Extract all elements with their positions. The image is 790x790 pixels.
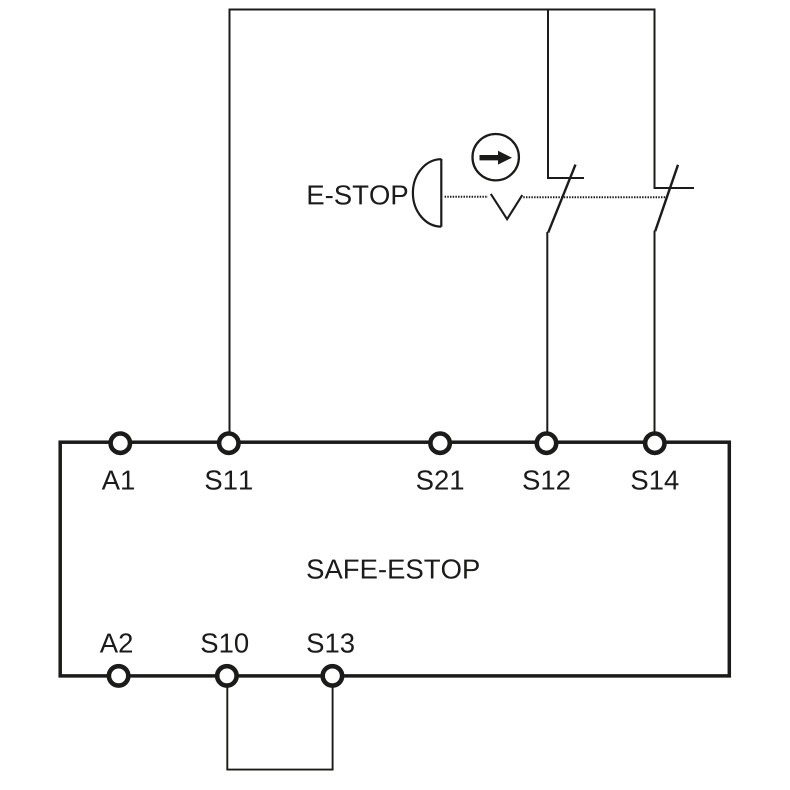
wire S12 branch upper — [547, 9, 549, 179]
wire S14 branch upper — [654, 9, 656, 189]
label S21 — [417, 470, 463, 489]
terminal S10 — [217, 666, 236, 685]
NC contact K1 moving blade — [548, 165, 575, 233]
turn-to-release symbol arrow — [480, 155, 500, 160]
label S11 — [206, 470, 252, 489]
label E-STOP — [309, 185, 408, 204]
wire top rail — [230, 9, 655, 11]
label S14 — [632, 470, 679, 489]
label SAFE-ESTOP — [307, 559, 479, 578]
terminal S21 — [430, 434, 449, 453]
NC contact K1 fixed terminal stub — [547, 177, 584, 179]
terminal S13 — [323, 666, 342, 685]
label A2 — [100, 633, 132, 652]
wire S11 riser — [229, 9, 231, 434]
terminal A2 — [109, 666, 128, 685]
mechanical link dotted line right segment — [523, 196, 666, 198]
label S13 — [307, 633, 353, 652]
latching V symbol — [491, 194, 523, 219]
mechanical link dotted line left segment — [445, 196, 488, 198]
label S10 — [201, 633, 248, 652]
label A1 — [102, 471, 134, 490]
jumper wire S10 to S13 — [227, 684, 332, 770]
terminal S12 — [537, 434, 556, 453]
turn-to-release symbol circle — [473, 134, 519, 180]
terminal A1 — [111, 434, 130, 453]
NC contact K2 fixed terminal stub — [654, 187, 695, 189]
relay module SAFE-ESTOP box — [60, 442, 729, 676]
E-STOP mushroom head actuator — [413, 159, 441, 227]
wire S14 branch lower — [654, 231, 656, 433]
terminal S11 — [219, 434, 238, 453]
NC contact K2 moving blade — [655, 165, 678, 231]
terminal S14 — [645, 434, 664, 453]
wire S12 branch lower — [546, 232, 548, 433]
label S12 — [523, 470, 569, 489]
